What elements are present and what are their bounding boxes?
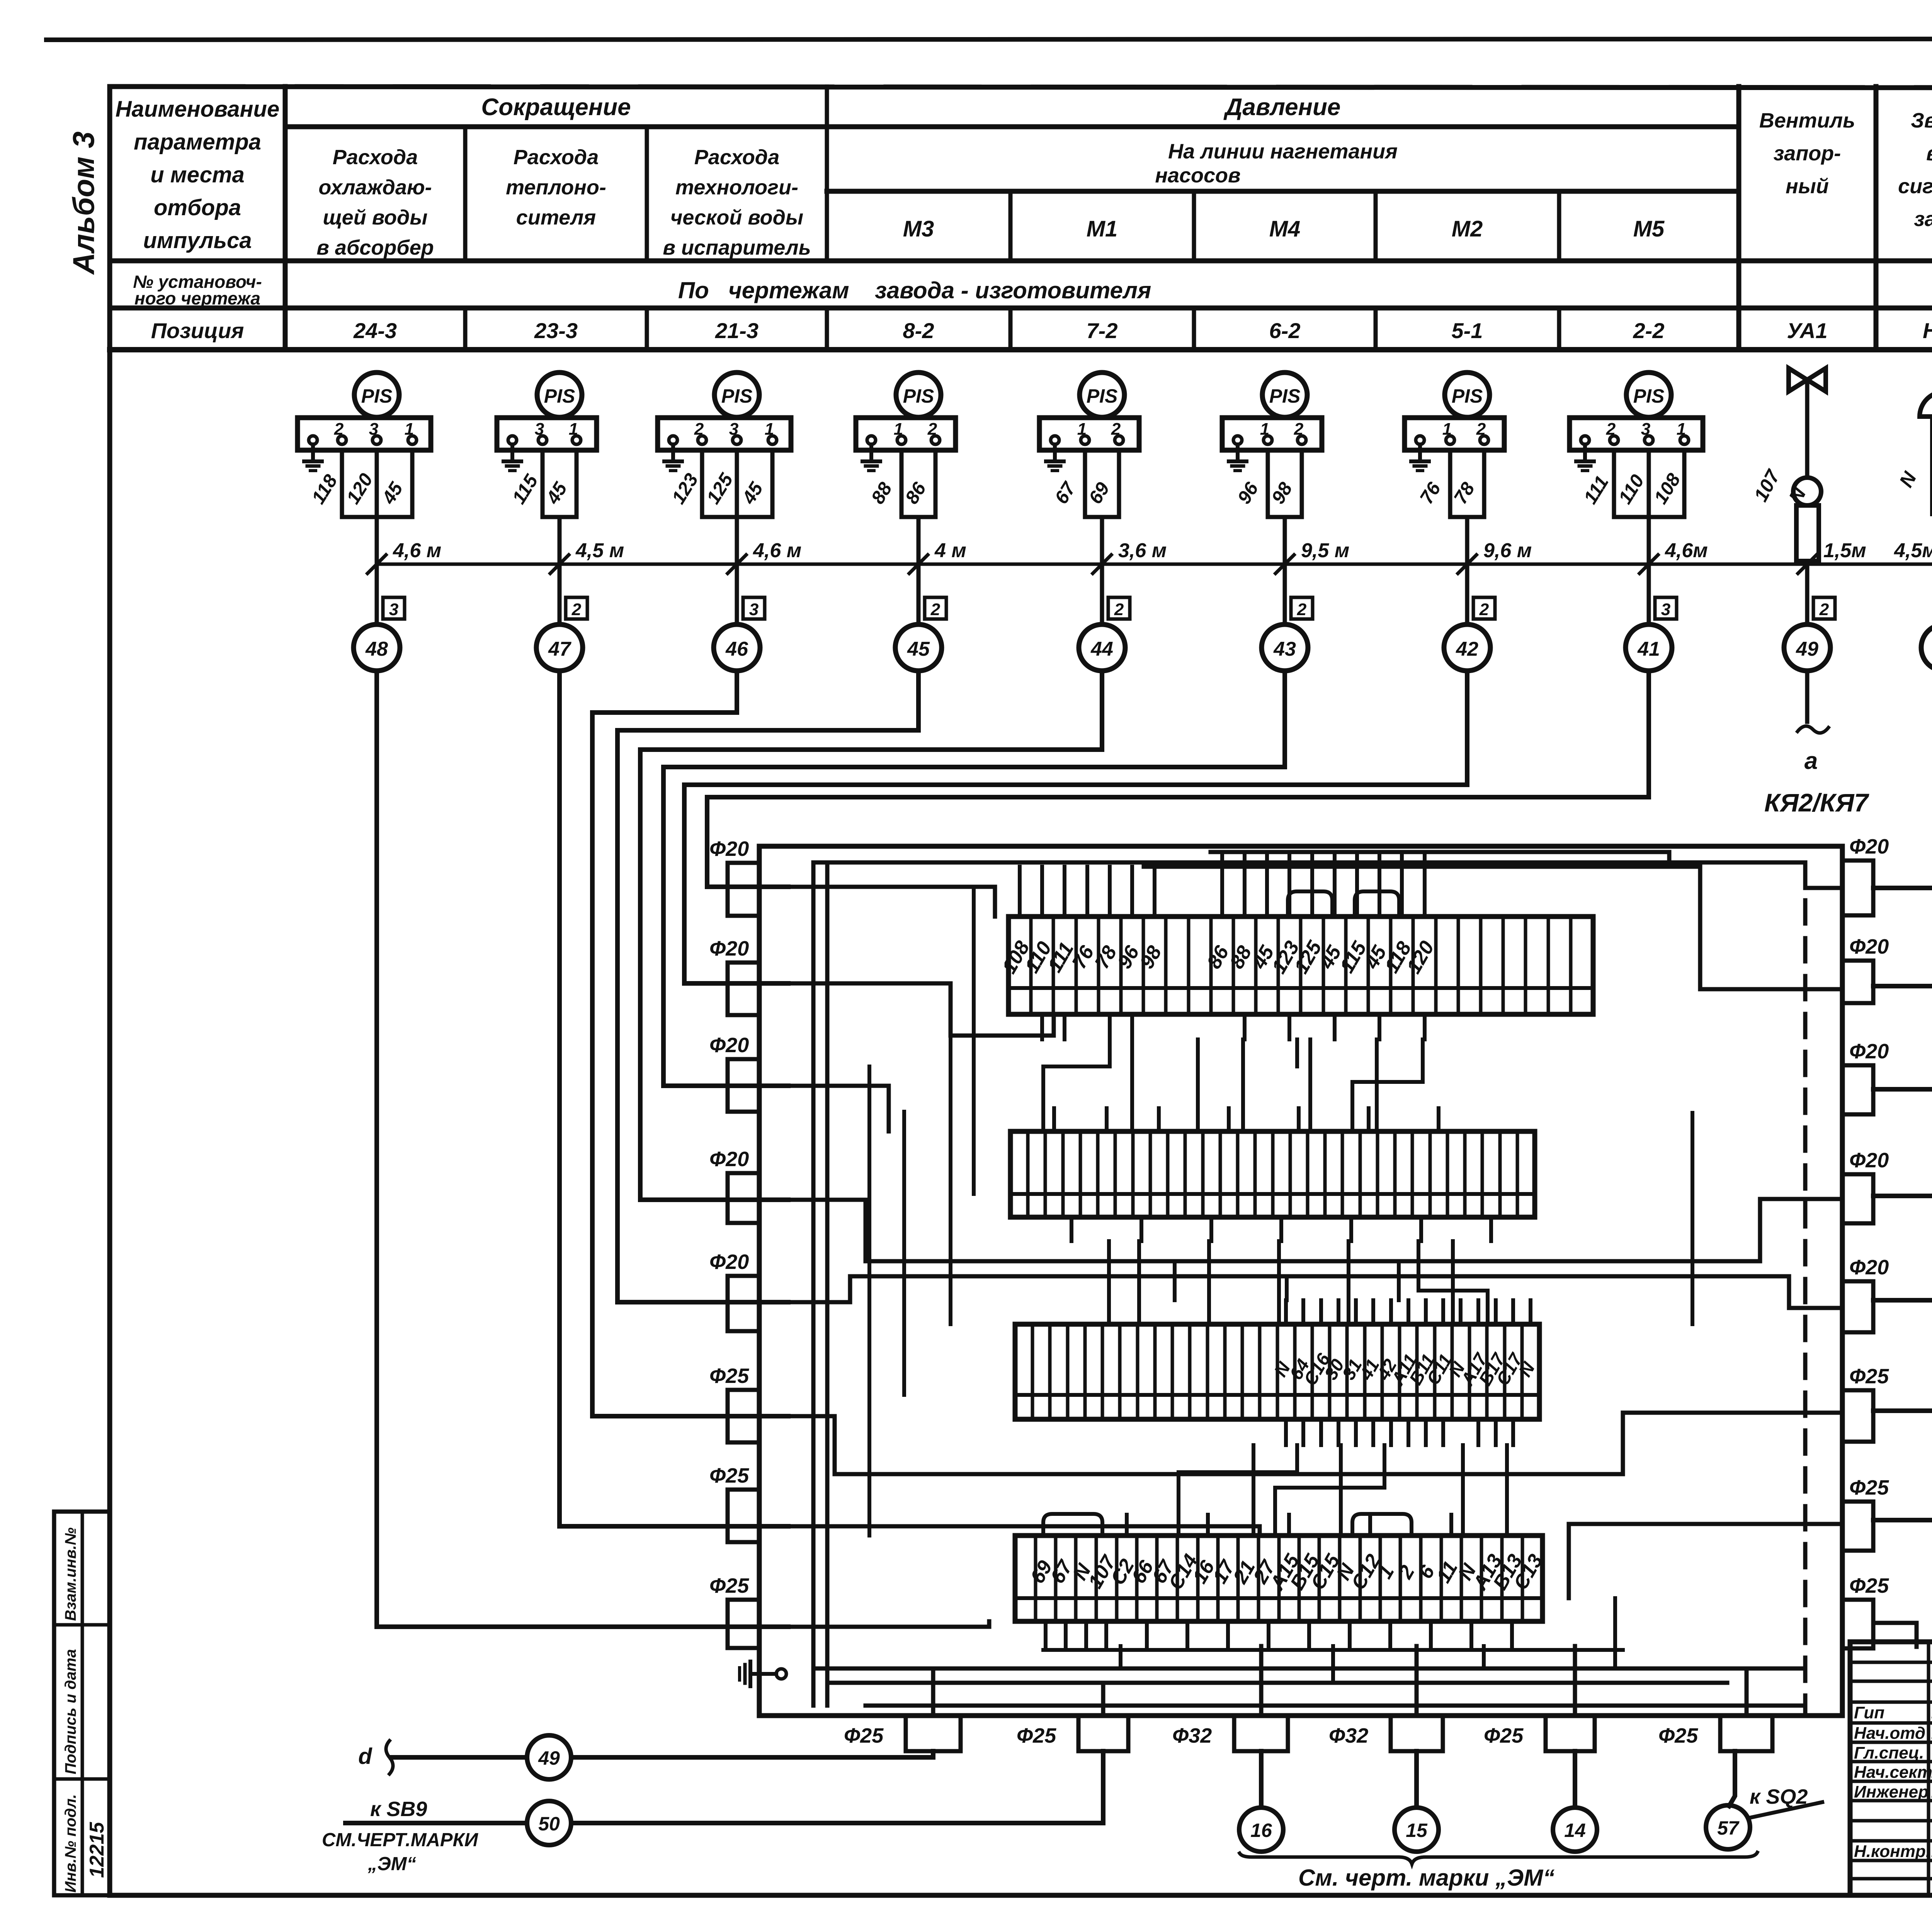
svg-text:Ф20: Ф20 xyxy=(1849,835,1889,858)
left conduit stub Ф20 xyxy=(728,963,759,1015)
wire 47 to box stub 7 xyxy=(560,671,788,1526)
wire 46 to box stub 6 xyxy=(592,671,788,1416)
table v-line zvuk xyxy=(1874,87,1879,350)
instrument PIS pos 48 xyxy=(354,372,399,417)
ground of PIS 47 xyxy=(510,444,514,461)
svg-text:М1: М1 xyxy=(1087,216,1118,241)
svg-text:ный: ный xyxy=(1786,175,1829,198)
svg-text:сигнали-: сигнали- xyxy=(1898,175,1932,198)
circuit 56 к М7 xyxy=(1873,1518,1932,1522)
conductor count box 3 xyxy=(383,597,405,619)
svg-text:Гл.спец.: Гл.спец. xyxy=(1854,1743,1924,1762)
svg-text:2: 2 xyxy=(1819,600,1829,619)
ground of PIS 42 xyxy=(1418,444,1422,461)
left conduit stub Ф25 xyxy=(728,1390,759,1442)
terminal 1 of PIS 47 xyxy=(508,436,517,444)
svg-text:2: 2 xyxy=(1606,420,1616,439)
svg-text:49: 49 xyxy=(538,1747,560,1769)
svg-text:Ф20: Ф20 xyxy=(709,1034,749,1057)
svg-text:Подпись и дата: Подпись и дата xyxy=(62,1649,79,1774)
svg-text:запор-: запор- xyxy=(1774,142,1841,165)
instrument PIS pos 42 xyxy=(1445,372,1490,417)
conductor count box 2 xyxy=(566,597,587,619)
svg-text:технологи-: технологи- xyxy=(675,176,798,199)
terminal 1 of PIS 45 xyxy=(867,436,876,444)
cable id circle 46 xyxy=(714,624,760,671)
strip4 risers to collectors xyxy=(1119,1646,1122,1668)
inner wire bus y2232 xyxy=(813,861,1805,865)
right conduit stub Ф20 xyxy=(1842,961,1873,1003)
stub7 inner wire xyxy=(788,1526,1260,1536)
wire 50 to box right stub 1 xyxy=(1873,671,1932,888)
wire from terminal xyxy=(1647,450,1651,517)
svg-text:Инв.№ подл.: Инв.№ подл. xyxy=(62,1794,79,1893)
svg-text:3: 3 xyxy=(369,420,378,439)
terminal 3 of PIS 41 xyxy=(1645,436,1653,444)
terminal 2 of PIS 42 xyxy=(1446,436,1454,444)
cable id circle 57 xyxy=(1706,1805,1750,1849)
wire from terminal xyxy=(575,450,579,517)
right stub R1 inner wire xyxy=(1805,886,1842,890)
strip1 wires down xyxy=(1040,1014,1044,1039)
terminal 1 of PIS 42 xyxy=(1416,436,1424,444)
svg-text:45: 45 xyxy=(738,478,767,508)
table bottom line xyxy=(110,347,1932,352)
svg-text:Ф32: Ф32 xyxy=(1172,1724,1212,1747)
wire from terminal xyxy=(1266,450,1270,517)
right stub R6 inner wire xyxy=(1569,1524,1842,1598)
svg-text:Ф25: Ф25 xyxy=(1849,1365,1889,1388)
valve UA1 (shut-off valve) xyxy=(1789,368,1826,391)
cable down to id circle xyxy=(1283,517,1287,624)
svg-text:3: 3 xyxy=(535,420,544,439)
cable down to id circle xyxy=(1647,517,1651,624)
terminal box of PIS 48 xyxy=(298,418,431,450)
strip4 wires up xyxy=(1125,1515,1129,1536)
svg-text:Ф25: Ф25 xyxy=(1484,1724,1524,1747)
stub8 inner wire xyxy=(788,1621,989,1627)
svg-text:1: 1 xyxy=(765,420,774,439)
strip3 wires up xyxy=(1284,1300,1288,1324)
right conduit stub Ф20 xyxy=(1842,861,1873,915)
svg-text:См. черт. марки „ЭМ“: См. черт. марки „ЭМ“ xyxy=(1298,1865,1554,1891)
terminal box of PIS 42 xyxy=(1405,418,1504,450)
cable id circle 41 xyxy=(1626,624,1672,671)
svg-text:Ф32: Ф32 xyxy=(1329,1724,1368,1747)
svg-text:46: 46 xyxy=(725,638,748,660)
terminal 4 of PIS 48 xyxy=(408,436,417,444)
svg-text:98: 98 xyxy=(1136,942,1166,973)
svg-text:Расхода: Расхода xyxy=(333,146,418,169)
strip1 wires up group A xyxy=(1018,867,1022,917)
table v-line at 4035 xyxy=(1557,191,1561,261)
terminal 1 of PIS 43 xyxy=(1233,436,1242,444)
ground of PIS 44 xyxy=(1053,444,1057,461)
svg-text:42: 42 xyxy=(1456,638,1478,660)
svg-text:96: 96 xyxy=(1234,478,1263,507)
svg-text:3,6 м: 3,6 м xyxy=(1118,539,1167,562)
terminal 3 of PIS 42 xyxy=(1480,436,1488,444)
svg-text:Ф25: Ф25 xyxy=(1017,1724,1056,1747)
svg-text:ного чертежа: ного чертежа xyxy=(134,288,260,308)
bottom conduit stub Ф25 xyxy=(906,1716,961,1751)
svg-text:PIS: PIS xyxy=(361,385,393,407)
svg-text:2: 2 xyxy=(927,420,937,439)
cable id circle 42 xyxy=(1444,624,1490,671)
svg-text:1: 1 xyxy=(1260,420,1269,439)
valve stem wire xyxy=(1805,380,1810,478)
svg-text:111: 111 xyxy=(1580,472,1613,508)
svg-text:4,6м: 4,6м xyxy=(1665,539,1708,562)
table v-line at 3560 xyxy=(1374,191,1378,261)
svg-text:5-1: 5-1 xyxy=(1452,318,1483,343)
svg-text:3: 3 xyxy=(1641,420,1650,439)
svg-text:2: 2 xyxy=(1476,420,1486,439)
svg-text:1: 1 xyxy=(1677,420,1686,439)
svg-text:Гип: Гип xyxy=(1854,1703,1884,1722)
table line under header cells xyxy=(110,259,1932,264)
length tick UA1 xyxy=(1798,555,1816,573)
strip3 risers up xyxy=(1173,1261,1177,1300)
svg-text:Ф25: Ф25 xyxy=(709,1464,749,1487)
svg-text:УА1: УА1 xyxy=(1787,318,1827,343)
wire from terminal xyxy=(735,450,739,517)
svg-text:отбора: отбора xyxy=(154,195,241,220)
table line under row2 xyxy=(110,306,1932,311)
stub5 inner wire to right stub R4 xyxy=(788,1276,1842,1308)
svg-text:44: 44 xyxy=(1090,638,1113,660)
svg-text:ческой воды: ческой воды xyxy=(670,206,803,229)
cable down to id circle xyxy=(917,517,921,624)
terminal box of PIS 44 xyxy=(1039,418,1139,450)
svg-text:3: 3 xyxy=(389,600,398,619)
sound alarm HA2 (horn) xyxy=(1920,392,1932,417)
svg-text:107: 107 xyxy=(1750,466,1784,505)
table v-line ventil xyxy=(1736,87,1742,350)
svg-text:120: 120 xyxy=(343,470,377,508)
right conduit stub Ф25 xyxy=(1842,1390,1873,1442)
svg-text:8-2: 8-2 xyxy=(903,318,934,343)
svg-text:120: 120 xyxy=(1402,937,1439,977)
svg-text:Инженер: Инженер xyxy=(1854,1782,1929,1801)
svg-text:1: 1 xyxy=(1077,420,1087,439)
terminal box of PIS 45 xyxy=(856,418,956,450)
svg-text:86: 86 xyxy=(901,478,930,507)
svg-text:СМ.ЧЕРТ.МАРКИ: СМ.ЧЕРТ.МАРКИ xyxy=(322,1830,479,1850)
svg-text:Взам.инв.№: Взам.инв.№ xyxy=(62,1527,79,1621)
right conduit stub Ф20 xyxy=(1842,1174,1873,1223)
cable id circle 47 xyxy=(536,624,583,671)
svg-text:в испаритель: в испаритель xyxy=(663,236,811,259)
break squiggle xyxy=(1798,726,1828,733)
svg-text:к SB9: к SB9 xyxy=(370,1798,427,1821)
wire from terminal xyxy=(934,450,938,517)
svg-text:110: 110 xyxy=(1615,471,1648,508)
svg-text:параметра: параметра xyxy=(134,129,261,155)
svg-text:зация: зация xyxy=(1914,207,1932,231)
svg-text:1,5м: 1,5м xyxy=(1823,539,1866,562)
right conduit stub Ф20 xyxy=(1842,1065,1873,1114)
svg-text:4,5м: 4,5м xyxy=(1894,539,1932,562)
bottom conduit stub Ф32 xyxy=(1391,1716,1443,1751)
cable down to id circle xyxy=(735,517,739,624)
svg-text:69: 69 xyxy=(1085,478,1114,507)
svg-text:123: 123 xyxy=(668,470,702,508)
left conduit stub Ф25 xyxy=(728,1600,759,1648)
circuit 54 к М6 xyxy=(1873,1298,1932,1303)
bottom conduit stub Ф25 xyxy=(1078,1716,1128,1751)
conductor count box 3 xyxy=(1655,597,1677,619)
circuit 14 xyxy=(1573,1751,1577,1808)
wire 48 to box stub 8 xyxy=(377,671,788,1627)
terminal 1 of PIS 41 xyxy=(1581,436,1589,444)
circuit 57 k SQ2 xyxy=(1729,1751,1735,1806)
instrument PIS pos 45 xyxy=(896,372,941,417)
wire 49 down to break xyxy=(1805,671,1810,722)
cable bundle joiner xyxy=(1268,515,1302,519)
instrument PIS pos 47 xyxy=(537,372,582,417)
box inner dashed boundary xyxy=(1803,862,1808,1716)
svg-text:98: 98 xyxy=(1268,478,1297,507)
wire from terminal xyxy=(700,450,704,517)
svg-text:78: 78 xyxy=(1450,478,1479,507)
svg-text:12215: 12215 xyxy=(86,1821,108,1878)
left frame vertical xyxy=(107,87,112,1895)
svg-text:115: 115 xyxy=(509,471,543,507)
wire from terminal xyxy=(340,450,344,517)
svg-text:6-2: 6-2 xyxy=(1269,318,1301,343)
terminal 2 of PIS 43 xyxy=(1264,436,1272,444)
svg-text:2: 2 xyxy=(571,600,582,619)
svg-text:теплоно-: теплоно- xyxy=(506,176,606,199)
circuit 15 xyxy=(1414,1751,1419,1808)
svg-text:45: 45 xyxy=(378,478,407,508)
svg-text:Ф25: Ф25 xyxy=(709,1574,749,1597)
svg-text:2: 2 xyxy=(1111,420,1121,439)
wire 43 to box stub 3 xyxy=(663,671,1285,1086)
right conduit stub Ф25 xyxy=(1842,1600,1873,1648)
svg-text:7-2: 7-2 xyxy=(1087,318,1118,343)
table line under group titles xyxy=(285,124,1739,129)
svg-text:Ф20: Ф20 xyxy=(1849,935,1889,958)
svg-text:Ф20: Ф20 xyxy=(1849,1040,1889,1063)
table line under davlenie subtitle xyxy=(827,189,1739,194)
wire from terminal xyxy=(900,450,904,517)
svg-text:Ф25: Ф25 xyxy=(709,1364,749,1388)
svg-text:Ф25: Ф25 xyxy=(1849,1476,1889,1499)
wire from terminal xyxy=(1612,450,1616,517)
svg-text:2-2: 2-2 xyxy=(1633,318,1665,343)
svg-text:PIS: PIS xyxy=(1087,385,1118,407)
svg-text:Расхода: Расхода xyxy=(514,146,599,169)
svg-text:4,6 м: 4,6 м xyxy=(753,539,801,562)
valve terminal body xyxy=(1796,505,1819,561)
length tick xyxy=(1639,555,1658,573)
left sidebar stamp strip xyxy=(54,1512,110,1895)
svg-text:d: d xyxy=(358,1744,372,1769)
terminal 1 of PIS 44 xyxy=(1051,436,1059,444)
svg-text:Альбом 3: Альбом 3 xyxy=(66,131,100,275)
svg-text:9,5 м: 9,5 м xyxy=(1301,539,1349,562)
svg-text:67: 67 xyxy=(1051,478,1080,508)
svg-text:Ф20: Ф20 xyxy=(1849,1256,1889,1279)
table v-line col4 xyxy=(825,87,829,261)
svg-text:1: 1 xyxy=(569,420,578,439)
svg-text:Ф20: Ф20 xyxy=(709,937,749,960)
svg-text:16: 16 xyxy=(1250,1820,1272,1841)
svg-text:НА2: НА2 xyxy=(1923,318,1932,343)
strip1 drops to strip2 xyxy=(1043,1039,1110,1131)
terminal 3 of PIS 44 xyxy=(1115,436,1123,444)
cable bundle joiner xyxy=(1614,515,1684,519)
svg-text:47: 47 xyxy=(548,638,571,660)
svg-text:2: 2 xyxy=(1114,600,1124,619)
circuit 52 к М8 xyxy=(1873,1087,1932,1092)
right conduit stub Ф25 xyxy=(1842,1502,1873,1551)
svg-text:3: 3 xyxy=(749,600,759,619)
cable down to id circle xyxy=(375,517,379,624)
svg-text:2: 2 xyxy=(1297,600,1307,619)
svg-text:3: 3 xyxy=(1661,600,1670,619)
spare right stub wire xyxy=(1873,1623,1917,1647)
length tick xyxy=(1276,555,1294,573)
circuit 16 xyxy=(1259,1751,1264,1808)
svg-text:14: 14 xyxy=(1564,1820,1586,1841)
risers to bottom stubs xyxy=(931,1668,935,1716)
wire from terminal xyxy=(541,450,545,517)
wire from terminal xyxy=(1682,450,1687,517)
svg-text:Давление: Давление xyxy=(1223,94,1341,121)
circuit 49 bottom wire xyxy=(571,1751,933,1757)
svg-text:М5: М5 xyxy=(1633,216,1665,241)
conductor count box 2 xyxy=(1291,597,1313,619)
terminal 3 of PIS 46 xyxy=(733,436,741,444)
wire 42 to box stub 2 xyxy=(684,671,1467,983)
svg-text:М2: М2 xyxy=(1452,216,1483,241)
cable id circle 45 xyxy=(895,624,942,671)
wire from terminal xyxy=(1300,450,1304,517)
wire from terminal xyxy=(375,450,379,517)
box left wall xyxy=(757,846,762,1716)
svg-text:Ф25: Ф25 xyxy=(1658,1724,1698,1747)
svg-text:15: 15 xyxy=(1406,1820,1428,1841)
terminal 1 of PIS 48 xyxy=(309,436,317,444)
strip2 wires up xyxy=(1052,1108,1056,1131)
terminal 2 of PIS 44 xyxy=(1081,436,1089,444)
terminal box of PIS 43 xyxy=(1222,418,1322,450)
svg-text:вая: вая xyxy=(1926,142,1932,165)
bottom conduit stub Ф25 xyxy=(1720,1716,1772,1751)
length tick xyxy=(367,555,386,573)
strip3 wires down xyxy=(1284,1419,1288,1445)
svg-text:2: 2 xyxy=(1479,600,1489,619)
svg-text:к SQ2: к SQ2 xyxy=(1750,1785,1808,1808)
svg-text:Ф20: Ф20 xyxy=(1849,1149,1889,1172)
svg-text:PIS: PIS xyxy=(1633,385,1665,407)
cable down to id circle xyxy=(558,517,562,624)
circuit 53 к SQ3 xyxy=(1873,1194,1932,1198)
svg-text:21-3: 21-3 xyxy=(715,318,759,343)
cable bundle joiner xyxy=(543,515,577,519)
terminal 2 of PIS 46 xyxy=(698,436,706,444)
cable down to id circle xyxy=(1100,517,1104,624)
svg-text:Н.контр.: Н.контр. xyxy=(1854,1842,1930,1861)
cable down to id circle xyxy=(1465,517,1469,624)
svg-text:N: N xyxy=(1895,468,1921,491)
svg-text:в абсорбер: в абсорбер xyxy=(316,236,434,259)
svg-text:Нач.отд: Нач.отд xyxy=(1854,1724,1925,1743)
svg-text:9,6 м: 9,6 м xyxy=(1483,539,1532,562)
instrument PIS pos 41 xyxy=(1626,372,1671,417)
cable id circle 43 xyxy=(1262,624,1308,671)
strip4 jumper arcs xyxy=(1043,1514,1102,1536)
cable bundle joiner xyxy=(342,515,412,519)
strip1 jumper arcs xyxy=(1288,891,1332,917)
svg-text:49: 49 xyxy=(1796,638,1818,660)
extra routing wires for density xyxy=(1130,1039,1134,1131)
box top edge xyxy=(759,844,1842,849)
table v-line col3 xyxy=(645,127,649,261)
terminal 4 of PIS 46 xyxy=(768,436,777,444)
length tick xyxy=(550,555,569,573)
second rule / table top line xyxy=(110,87,1932,88)
cable bundle joiner xyxy=(901,515,935,519)
leader to k SQ2 xyxy=(1748,1802,1822,1818)
svg-text:1: 1 xyxy=(405,420,414,439)
terminal 1 of PIS 46 xyxy=(669,436,677,444)
valve actuator circle xyxy=(1793,478,1821,505)
terminal box of PIS 41 xyxy=(1570,418,1703,450)
strip1 wires up group B xyxy=(1220,852,1224,917)
svg-text:охлаждаю-: охлаждаю- xyxy=(318,176,432,199)
svg-text:Вентиль: Вентиль xyxy=(1759,109,1855,132)
terminal 2 of PIS 47 xyxy=(538,436,547,444)
svg-text:PIS: PIS xyxy=(721,385,753,407)
cable id circle 14 xyxy=(1553,1808,1597,1852)
svg-text:Звуко-: Звуко- xyxy=(1911,109,1932,132)
svg-text:2: 2 xyxy=(930,600,940,619)
conductor count box 2 xyxy=(1473,597,1495,619)
table v-line at 3090 xyxy=(1192,191,1196,261)
conductor count box 2 (UA1) xyxy=(1813,597,1835,619)
cable length reference line xyxy=(377,563,1932,566)
svg-text:23-3: 23-3 xyxy=(534,318,578,343)
top rule line xyxy=(46,39,1932,40)
cable id circle 44 xyxy=(1079,624,1125,671)
wire from terminal xyxy=(410,450,415,517)
svg-text:a: a xyxy=(1804,748,1818,774)
cable bundle joiner xyxy=(1450,515,1484,519)
instrument PIS pos 43 xyxy=(1262,372,1307,417)
svg-text:Позиция: Позиция xyxy=(151,318,244,343)
ground inside box xyxy=(776,1669,786,1679)
terminal strip 2 xyxy=(1010,1131,1535,1217)
ground of PIS 46 xyxy=(671,444,675,461)
left conduit stub Ф20 xyxy=(728,863,759,916)
length tick xyxy=(1093,555,1111,573)
terminal box of PIS 47 xyxy=(497,418,597,450)
svg-text:По чертежам завода - изго: По чертежам завода - изготовителя xyxy=(678,277,1151,303)
table v-line col1 xyxy=(283,87,288,350)
svg-text:Сокращение: Сокращение xyxy=(481,94,631,121)
box bottom edge xyxy=(759,1713,1842,1718)
svg-text:КЯ2/КЯ7: КЯ2/КЯ7 xyxy=(1764,788,1869,817)
bottom conduit stub Ф25 xyxy=(1546,1716,1595,1751)
svg-text:118: 118 xyxy=(308,471,342,507)
svg-text:57: 57 xyxy=(1717,1817,1740,1839)
svg-text:Ф25: Ф25 xyxy=(844,1724,884,1747)
svg-text:PIS: PIS xyxy=(903,385,934,407)
